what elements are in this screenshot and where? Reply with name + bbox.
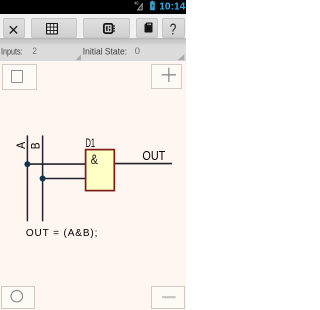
schematic canvas: [0, 0, 186, 310]
junction node on B: [40, 176, 46, 182]
toolbar button: truth table grid: [31, 18, 78, 38]
toolbar button: close X: [3, 18, 25, 38]
net label A: [16, 142, 28, 149]
inputs row: [0, 41, 186, 61]
bottom-left button: run: [1, 286, 35, 309]
toolbar button: help ?: [162, 18, 185, 38]
net label B: [31, 142, 43, 149]
canvas small-button: add: [151, 64, 182, 88]
equation text: [26, 228, 98, 239]
toolbar button: save card: [136, 18, 158, 38]
svg-text:OUT = (A&B);: OUT = (A&B);: [26, 228, 98, 239]
wire output OUT: [115, 163, 172, 165]
toolbar button: IC component: [83, 18, 131, 38]
svg-text:D1: D1: [86, 136, 96, 150]
wire branch A to gate pin 1: [27, 163, 85, 165]
status bar: [0, 0, 186, 14]
wire input B vertical: [42, 135, 44, 221]
gate function label &: [91, 152, 98, 167]
svg-text:OUT: OUT: [142, 149, 165, 163]
gate designator D1: [86, 136, 96, 150]
AND gate D1 body: [86, 150, 115, 191]
svg-text:&: &: [91, 152, 98, 167]
net label OUT: [142, 149, 165, 163]
wire branch B to gate pin 2: [43, 178, 86, 180]
canvas small-button: select: [2, 64, 37, 90]
wire input A vertical: [26, 135, 28, 221]
svg-text:A: A: [16, 142, 28, 149]
bottom-right button: minimize: [151, 286, 185, 308]
junction node on A: [24, 161, 30, 167]
svg-text:B: B: [31, 142, 43, 149]
toolbar panel: [0, 14, 186, 41]
